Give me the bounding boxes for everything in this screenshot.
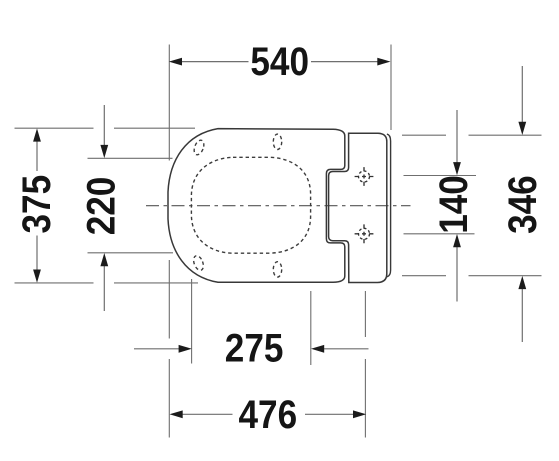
svg-text:540: 540 [250,39,309,83]
svg-text:275: 275 [225,326,284,370]
svg-text:346: 346 [500,175,544,234]
svg-text:476: 476 [238,392,297,436]
svg-text:220: 220 [78,177,122,236]
svg-text:140: 140 [431,175,475,234]
svg-text:375: 375 [14,175,58,234]
